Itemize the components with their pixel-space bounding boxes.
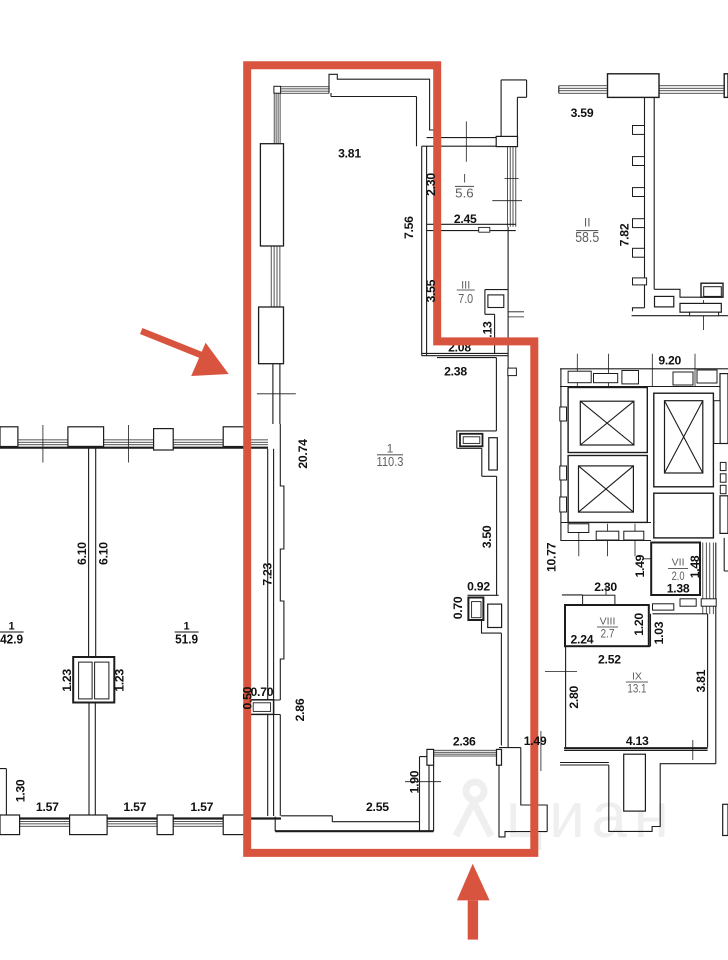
elevator shafts crossed [580, 401, 634, 445]
svg-text:3.81: 3.81 [338, 147, 361, 161]
svg-text:0.70: 0.70 [251, 685, 274, 699]
wall outline paths [280, 74, 716, 837]
svg-text:0.70: 0.70 [451, 596, 465, 619]
svg-text:3.59: 3.59 [571, 106, 594, 120]
svg-text:2.30: 2.30 [594, 580, 617, 594]
svg-text:1.20: 1.20 [632, 613, 646, 636]
svg-text:51.9: 51.9 [175, 632, 198, 646]
svg-text:2.55: 2.55 [366, 800, 389, 814]
svg-text:7.82: 7.82 [617, 223, 631, 246]
svg-text:1.57: 1.57 [190, 800, 213, 814]
svg-text:VII: VII [672, 557, 685, 569]
arrow pointer bottom [457, 864, 490, 940]
svg-text:1.38: 1.38 [667, 581, 690, 595]
walls thick [0, 448, 708, 832]
svg-text:1.03: 1.03 [652, 621, 666, 644]
svg-text:I: I [463, 172, 466, 186]
svg-text:5.6: 5.6 [455, 185, 474, 200]
dimension extension lines [43, 121, 704, 781]
window glazing lines [0, 86, 724, 827]
svg-text:7.0: 7.0 [458, 291, 473, 306]
svg-text:3.50: 3.50 [480, 525, 494, 548]
svg-text:58.5: 58.5 [575, 230, 599, 246]
svg-text:110.3: 110.3 [377, 454, 404, 469]
pillars, windows, boxes [73, 657, 114, 703]
svg-text:II: II [584, 215, 591, 229]
svg-text:42.9: 42.9 [0, 632, 23, 646]
svg-text:2.86: 2.86 [293, 698, 307, 721]
svg-text:13.1: 13.1 [627, 682, 646, 696]
svg-text:1: 1 [9, 620, 15, 632]
svg-text:2.45: 2.45 [454, 212, 477, 226]
svg-text:2.24: 2.24 [571, 633, 594, 647]
svg-text:9.20: 9.20 [658, 354, 681, 368]
svg-text:1.49: 1.49 [524, 734, 547, 748]
svg-text:2.30: 2.30 [424, 173, 438, 196]
room number labels [455, 172, 474, 201]
svg-text:.13: .13 [480, 321, 494, 338]
red unit outline [247, 65, 534, 853]
svg-text:1.30: 1.30 [14, 779, 28, 802]
svg-text:1: 1 [184, 620, 190, 632]
svg-text:6.10: 6.10 [75, 542, 89, 565]
svg-text:2.36: 2.36 [453, 734, 476, 748]
svg-text:4.13: 4.13 [626, 734, 649, 748]
svg-text:2.80: 2.80 [567, 685, 581, 708]
svg-text:1.23: 1.23 [113, 669, 127, 692]
svg-text:6.10: 6.10 [97, 542, 111, 565]
svg-text:1.48: 1.48 [688, 555, 702, 578]
svg-text:1.90: 1.90 [408, 770, 422, 793]
svg-text:3.55: 3.55 [424, 279, 438, 302]
svg-text:20.74: 20.74 [296, 439, 310, 469]
svg-text:3.81: 3.81 [694, 669, 708, 692]
svg-text:7.23: 7.23 [260, 562, 274, 585]
svg-text:2.52: 2.52 [598, 653, 621, 667]
arrow pointer top-left [141, 331, 229, 376]
svg-text:2.38: 2.38 [444, 365, 467, 379]
svg-text:1.49: 1.49 [633, 554, 647, 577]
svg-text:1.57: 1.57 [123, 800, 146, 814]
svg-text:0.92: 0.92 [467, 580, 490, 594]
svg-text:1.57: 1.57 [36, 800, 59, 814]
svg-text:2.7: 2.7 [601, 627, 615, 641]
walls thin [0, 80, 728, 831]
svg-text:2.0: 2.0 [672, 569, 685, 583]
svg-text:10.77: 10.77 [545, 542, 559, 572]
svg-text:1.23: 1.23 [60, 669, 74, 692]
svg-text:7.56: 7.56 [402, 216, 416, 239]
watermark cian logo [456, 779, 675, 851]
